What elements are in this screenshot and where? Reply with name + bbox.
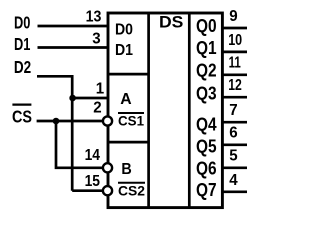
wire output Q7 pin 4 (222, 190, 247, 193)
wire D0 to pin 13 (38, 25, 109, 28)
svg-text:D0: D0 (14, 13, 31, 33)
svg-text:Q1: Q1 (196, 38, 217, 58)
wire D2 branch to pin 15 (72, 189, 106, 192)
svg-text:Q6: Q6 (196, 158, 217, 178)
svg-text:Q4: Q4 (196, 114, 217, 134)
svg-text:7: 7 (229, 102, 237, 119)
svg-text:5: 5 (229, 148, 238, 165)
svg-text:Q0: Q0 (196, 16, 217, 36)
svg-text:Q3: Q3 (196, 84, 217, 104)
svg-text:A: A (120, 91, 132, 108)
overline of CS2 (118, 182, 145, 184)
svg-text:6: 6 (229, 125, 238, 142)
svg-text:12: 12 (228, 77, 242, 94)
svg-text:CS2: CS2 (118, 184, 145, 199)
svg-text:1: 1 (96, 81, 105, 98)
overline of CS1 (118, 112, 144, 114)
svg-text:D1: D1 (14, 34, 31, 54)
wire output Q3 pin 12 (222, 96, 247, 99)
svg-text:11: 11 (229, 55, 241, 72)
IC internal vertical line right (DS column / output column divider) (188, 13, 191, 208)
svg-text:Q5: Q5 (196, 136, 217, 156)
wire output Q6 pin 5 (222, 166, 247, 169)
IC input section divider 2 (between CS1 and B rows) (108, 141, 149, 144)
svg-text:DS: DS (159, 13, 183, 32)
IC internal vertical line left (input column / DS column divider) (147, 13, 150, 208)
svg-text:4: 4 (229, 172, 238, 189)
svg-text:14: 14 (85, 147, 101, 164)
wire output Q2 pin 11 (222, 73, 247, 76)
svg-text:13: 13 (86, 8, 102, 25)
svg-text:Q7: Q7 (196, 180, 217, 200)
svg-text:D2: D2 (14, 57, 32, 77)
wire output Q4 pin 7 (222, 121, 247, 124)
wire output Q5 pin 6 (222, 143, 247, 146)
overline of input CS (12, 103, 31, 105)
IC U1 outer box (108, 13, 222, 208)
wire output Q1 pin 10 (222, 51, 247, 54)
svg-text:B: B (121, 161, 131, 178)
inverter bubble pin 14 (B) (103, 163, 112, 172)
svg-text:D1: D1 (115, 42, 133, 59)
svg-text:9: 9 (229, 8, 238, 25)
junction node on D2 net (69, 95, 76, 102)
svg-text:CS: CS (12, 107, 32, 127)
svg-text:15: 15 (85, 173, 101, 190)
svg-text:3: 3 (92, 31, 101, 48)
wire D2 horizontal + vertical run down to pin 15 row (37, 76, 72, 190)
junction node on CS net (53, 118, 60, 125)
svg-text:2: 2 (93, 100, 101, 117)
svg-text:CS1: CS1 (118, 114, 144, 129)
wire output Q0 pin 9 (222, 27, 247, 30)
wire branch to pin 1 (72, 97, 108, 100)
inverter bubble pin 2 (CS1) (103, 116, 112, 125)
wire CS to pin 2 (37, 120, 106, 123)
svg-text:10: 10 (228, 32, 242, 49)
svg-text:D0: D0 (115, 22, 133, 39)
wire D1 to pin 3 (38, 46, 109, 49)
inverter bubble pin 15 (CS2) (103, 186, 112, 195)
IC input section divider 1 (between D1 and A rows) (108, 73, 149, 76)
svg-text:Q2: Q2 (196, 61, 217, 81)
wire CS branch down to pin 14 (56, 121, 106, 168)
